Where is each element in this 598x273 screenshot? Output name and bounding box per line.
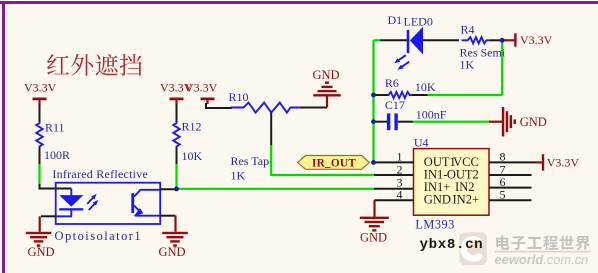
svg-text:GND: GND	[424, 193, 451, 207]
svg-text:Res Tap: Res Tap	[231, 154, 270, 168]
svg-text:V3.3V: V3.3V	[185, 81, 218, 95]
svg-text:U4: U4	[414, 136, 429, 150]
svg-text:IR_OUT: IR_OUT	[312, 157, 356, 169]
svg-text:V3.3V: V3.3V	[520, 33, 553, 47]
svg-text:R6: R6	[385, 76, 399, 90]
svg-text:4: 4	[397, 188, 403, 202]
svg-text:Infrared Reflective: Infrared Reflective	[52, 167, 148, 181]
svg-text:GND: GND	[158, 245, 185, 259]
svg-text:100nF: 100nF	[416, 108, 447, 122]
svg-text:5: 5	[500, 188, 506, 202]
svg-text:C17: C17	[385, 98, 405, 112]
svg-text:R10: R10	[229, 90, 249, 104]
svg-text:GND: GND	[27, 245, 54, 259]
svg-text:V3.3V: V3.3V	[547, 155, 580, 169]
svg-text:Optoisolator1: Optoisolator1	[55, 229, 143, 243]
svg-text:V3.3V: V3.3V	[24, 81, 57, 95]
svg-text:GND: GND	[520, 115, 547, 129]
svg-text:R4: R4	[461, 23, 475, 37]
svg-text:1K: 1K	[460, 58, 475, 72]
svg-text:GND: GND	[312, 68, 339, 82]
svg-text:GND: GND	[360, 231, 387, 245]
svg-text:eeworld.com.cn: eeworld.com.cn	[495, 252, 589, 267]
svg-text:D1: D1	[388, 13, 403, 27]
svg-text:10K: 10K	[182, 149, 203, 163]
svg-text:R11: R11	[45, 121, 65, 135]
svg-text:LED0: LED0	[404, 15, 433, 29]
svg-text:LM393: LM393	[415, 218, 454, 232]
svg-text:10K: 10K	[415, 80, 436, 94]
svg-text:R12: R12	[182, 120, 202, 134]
svg-text:100R: 100R	[44, 148, 70, 162]
svg-text:1K: 1K	[231, 169, 246, 183]
svg-text:IN2+: IN2+	[453, 193, 480, 207]
svg-text:ybx8.cn: ybx8.cn	[420, 237, 484, 253]
svg-text:2: 2	[397, 162, 403, 176]
